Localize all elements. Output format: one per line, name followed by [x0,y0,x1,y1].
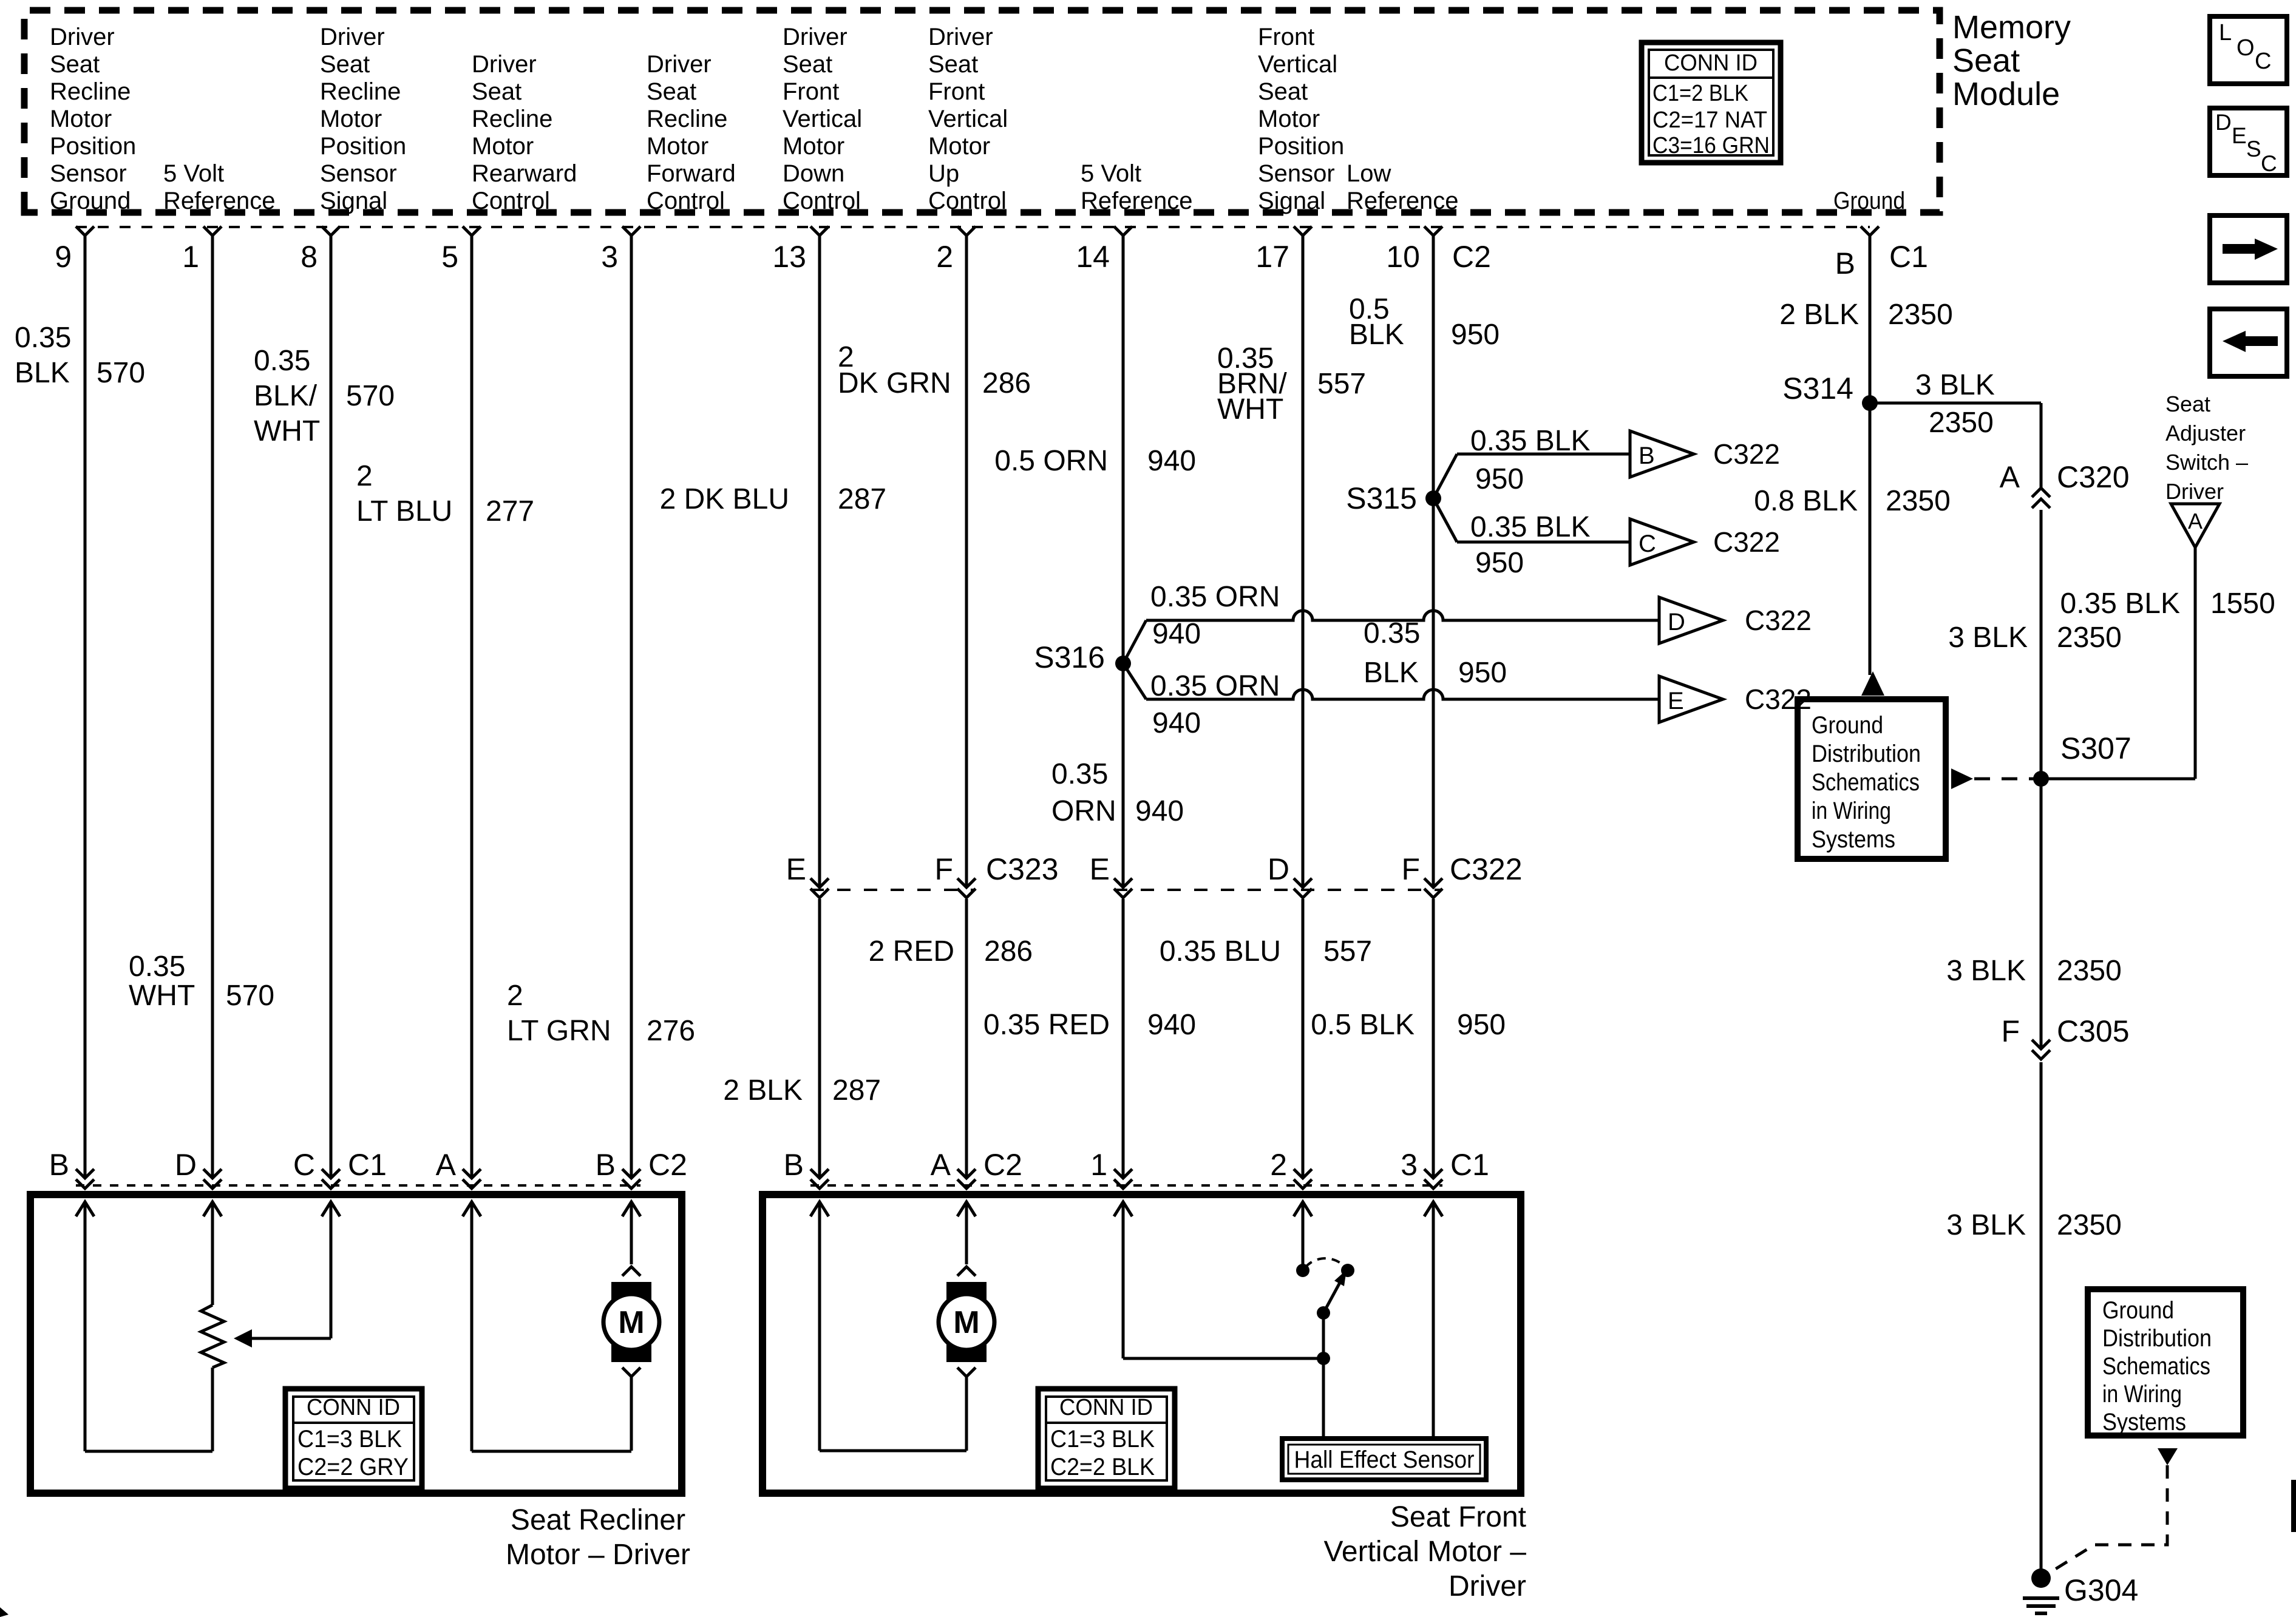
svg-text:A: A [931,1148,951,1182]
svg-text:C323: C323 [986,852,1059,886]
svg-text:C2=17 NAT: C2=17 NAT [1652,107,1767,133]
svg-text:CONN ID: CONN ID [1059,1395,1153,1420]
wire from switch junction to hall effect sensor [1322,1358,1325,1441]
Seat Front Vertical Motor - Driver component box [763,1195,1521,1493]
svg-text:C2: C2 [648,1148,687,1182]
recliner pin B internal wire [76,1202,94,1216]
svg-text:Forward: Forward [647,160,736,187]
svg-text:Recline: Recline [50,78,131,105]
svg-text:3: 3 [1401,1148,1418,1182]
triangle connector D to C322 [1659,597,1723,643]
svg-text:0.35: 0.35 [15,322,71,354]
Memory Seat Module dashed outline box [24,10,1940,212]
dashed reference link from lower box to G304 [2045,1465,2167,1576]
connector terminal B at x=140 [76,1169,94,1178]
svg-text:Front: Front [1258,24,1314,50]
ground distribution schematics reference box upper [1798,699,1946,859]
svg-text:950: 950 [1475,547,1524,579]
splice S314 [1862,395,1878,411]
motor M symbol at x=1040 [622,1267,640,1276]
svg-text:Vertical: Vertical [783,106,862,132]
svg-text:S307: S307 [2060,731,2131,765]
svg-text:S316: S316 [1034,640,1105,674]
svg-text:Driver: Driver [647,51,712,78]
wire 2 BLK 2350 module ground to S314 [1869,236,1872,403]
svg-text:557: 557 [1317,368,1366,400]
svg-text:Up: Up [928,160,959,187]
motor M symbol at x=1592 [957,1267,976,1276]
svg-text:Motor – Driver: Motor – Driver [506,1539,690,1571]
svg-text:Motor: Motor [783,133,844,160]
svg-text:Low: Low [1347,160,1391,187]
svg-text:2350: 2350 [1929,407,1994,439]
svg-text:3 BLK: 3 BLK [1946,955,2026,987]
svg-text:BLK: BLK [1364,657,1419,689]
connector terminal B at x=1350 [810,1169,829,1178]
svg-text:E: E [1090,852,1110,886]
svg-text:C: C [293,1148,315,1182]
svg-text:940: 940 [1147,1009,1196,1041]
svg-text:C2: C2 [1452,240,1491,274]
svg-text:3 BLK: 3 BLK [1948,622,2028,654]
svg-text:Systems: Systems [1812,826,1895,853]
svg-text:Control: Control [928,188,1007,214]
ground distribution schematics reference box lower [2088,1289,2243,1436]
recliner motor supply wire [622,1202,640,1216]
svg-text:C2=2 GRY: C2=2 GRY [297,1454,409,1480]
connector C323 terminal F [957,878,976,887]
scan artifact right edge [2291,1480,2296,1532]
svg-text:Motor: Motor [472,133,534,160]
Hall Effect Sensor box [1282,1439,1486,1480]
wire 570 BLK pin 9 to recliner B [84,236,87,1178]
svg-text:Seat: Seat [2165,392,2210,416]
svg-text:3: 3 [601,240,618,274]
connector terminal 2 at x=2146 [1294,1169,1312,1178]
dashed reference link from ground distribution box to S307 [1951,768,1973,789]
svg-text:C1: C1 [1450,1148,1489,1182]
svg-text:in Wiring: in Wiring [2102,1381,2182,1408]
wire 0.35 BLK 1550 switch to S307 [2194,547,2197,779]
svg-text:Motor: Motor [928,133,990,160]
svg-text:C322: C322 [1450,852,1523,886]
CONN ID table recliner motor [285,1389,422,1488]
svg-text:C2: C2 [983,1148,1022,1182]
svg-text:C1=3 BLK: C1=3 BLK [1050,1426,1155,1453]
svg-text:0.35: 0.35 [1364,617,1420,649]
svg-text:0.8 BLK: 0.8 BLK [1754,485,1858,517]
connector C322 dashed line [1114,889,1442,891]
svg-text:940: 940 [1152,618,1201,650]
svg-text:2 DK BLU: 2 DK BLU [660,483,789,515]
svg-text:0.35 BLU: 0.35 BLU [1160,935,1281,968]
svg-text:0.35 BLK: 0.35 BLK [1470,511,1590,543]
svg-text:Seat: Seat [50,51,100,78]
wire 0.8 BLK 2350 S314 to ground distribution [1869,403,1872,675]
svg-text:M: M [618,1305,644,1340]
svg-text:8: 8 [301,240,318,274]
svg-text:3 BLK: 3 BLK [1915,369,1995,401]
svg-text:1550: 1550 [2210,588,2275,620]
svg-text:950: 950 [1458,657,1507,689]
module connector dashed line [76,226,1870,228]
hall sensor switch left contact from pin 2 [1294,1202,1312,1216]
CONN ID table for module connectors C1 C2 C3 [1642,42,1781,163]
module pin 9 connector symbol [76,226,94,236]
hall sensor switch junction node [1317,1352,1330,1365]
module pin 5 connector symbol [463,226,481,236]
svg-text:D: D [1668,609,1685,636]
svg-text:1: 1 [1090,1148,1107,1182]
svg-text:Ground: Ground [50,188,131,214]
svg-text:286: 286 [984,935,1033,968]
svg-text:Seat: Seat [1258,78,1308,105]
wire 950 BLK pin 10 to C322 F [1432,236,1435,886]
svg-text:Driver: Driver [50,24,115,50]
svg-text:Recline: Recline [472,106,552,132]
splice S316 [1115,656,1131,671]
triangle connector E to C322 [1659,676,1723,722]
vertical motor pin B internal wire [810,1202,829,1216]
svg-text:B: B [1835,246,1855,280]
svg-text:D: D [2215,110,2232,135]
wire 940 ORN pin 14 to C322 E [1122,236,1125,886]
svg-text:CONN ID: CONN ID [307,1395,400,1420]
svg-text:940: 940 [1152,707,1201,739]
svg-text:G304: G304 [2064,1573,2138,1607]
wire 0.35 ORN S316 upper branch to C322 D [1123,620,1146,663]
recliner position sensor potentiometer resistor [203,1202,222,1216]
seat adjuster switch triangle connector A [2171,504,2220,547]
DESC reference box [2210,108,2287,175]
connector terminal 3 at x=2361 [1424,1169,1442,1178]
wire 0.35 BLK S315 lower branch to C322 C [1433,498,1457,542]
svg-text:0.35: 0.35 [254,345,310,377]
wire 570 BLK/WHT pin 8 to recliner C [330,236,333,1178]
svg-text:F: F [1401,852,1420,886]
svg-text:DK GRN: DK GRN [838,367,951,399]
svg-text:Rearward: Rearward [472,160,577,187]
svg-text:950: 950 [1457,1009,1506,1041]
connector terminal 1 at x=1850 [1114,1169,1132,1178]
svg-text:O: O [2237,35,2255,61]
svg-text:Reference: Reference [1347,188,1459,214]
svg-text:E: E [1668,688,1684,714]
svg-text:2350: 2350 [1886,485,1951,517]
wire 287 BLK below C323 E [818,899,821,1178]
svg-text:Driver: Driver [928,24,993,50]
connector terminal D at x=350 [203,1169,222,1178]
svg-text:LT BLU: LT BLU [356,495,452,527]
svg-text:2: 2 [936,240,953,274]
svg-text:LT GRN: LT GRN [507,1015,611,1047]
svg-text:5 Volt: 5 Volt [1081,160,1141,187]
hall sensor switch right contact [1341,1264,1354,1277]
svg-text:A: A [436,1148,457,1182]
svg-text:0.5 ORN: 0.5 ORN [994,445,1108,477]
svg-text:5: 5 [441,240,458,274]
module pin 1 connector symbol [203,226,222,236]
svg-text:in Wiring: in Wiring [1812,798,1891,824]
svg-text:0.5 BLK: 0.5 BLK [1311,1009,1415,1041]
wire 3 BLK 2350 C320 to S307 [2040,510,2043,779]
connector C322 terminal E [1114,878,1132,887]
svg-text:Front: Front [928,78,985,105]
vertical motor connector dashed line [810,1184,1442,1187]
wire 277 LT BLU pin 5 to recliner A [470,236,474,1178]
svg-text:WHT: WHT [129,980,195,1012]
Seat Recliner Motor - Driver component box [30,1195,682,1493]
wire 276 LT GRN pin 3 to recliner B [630,236,633,1178]
svg-text:940: 940 [1135,795,1184,827]
triangle connector B to C322 [1630,431,1694,477]
hall sensor switch dashed travel arc [1305,1258,1345,1267]
svg-text:F: F [2001,1014,2020,1048]
svg-text:276: 276 [647,1015,695,1047]
svg-text:2 RED: 2 RED [869,935,954,968]
forward arrow navigation box [2210,215,2287,283]
svg-text:B: B [1639,442,1655,469]
svg-text:D: D [1268,852,1289,886]
module pin 17 connector symbol [1294,226,1312,236]
recliner connector dashed line [76,1184,640,1187]
svg-text:E: E [2232,123,2247,148]
svg-text:3 BLK: 3 BLK [1946,1209,2026,1241]
module pin 8 connector symbol [322,226,340,236]
svg-text:S315: S315 [1346,481,1417,515]
svg-text:C320: C320 [2057,460,2130,494]
svg-text:Systems: Systems [2102,1409,2186,1436]
svg-text:17: 17 [1255,240,1289,274]
svg-text:Vertical Motor –: Vertical Motor – [1324,1536,1527,1568]
svg-text:Schematics: Schematics [1812,769,1920,796]
wire 940 RED below C322 E [1122,899,1125,1178]
module pin 14 connector symbol [1114,226,1132,236]
svg-text:S: S [2246,137,2261,161]
svg-text:A: A [2188,509,2203,534]
svg-text:Sensor: Sensor [1258,160,1335,187]
svg-text:5 Volt: 5 Volt [163,160,224,187]
svg-text:0.35 ORN: 0.35 ORN [1150,670,1280,702]
svg-text:287: 287 [832,1074,881,1107]
svg-text:L: L [2219,20,2232,46]
svg-text:Ground: Ground [1812,712,1883,739]
svg-text:Driver: Driver [320,24,385,50]
svg-text:Switch –: Switch – [2165,450,2248,475]
wire 570 WHT pin 1 to recliner D [211,236,214,1178]
svg-text:13: 13 [772,240,806,274]
svg-text:Seat: Seat [647,78,696,105]
svg-text:277: 277 [486,495,534,527]
svg-text:C: C [2255,49,2271,74]
recliner pin C wiper wire with arrow [322,1202,340,1216]
svg-text:C: C [1639,531,1656,557]
svg-text:2 BLK: 2 BLK [723,1074,803,1107]
svg-text:Seat: Seat [928,51,978,78]
wire 286 DK GRN pin 2 to C323 F [965,236,968,886]
svg-text:Sensor: Sensor [50,160,127,187]
svg-text:M: M [953,1305,979,1340]
svg-text:C: C [2261,151,2277,176]
connector C323 dashed line [810,889,976,891]
svg-text:2: 2 [507,980,523,1012]
wire 0.35 BLK S315 upper branch to C322 B [1433,454,1457,498]
svg-text:14: 14 [1076,240,1110,274]
module pin 3 connector symbol [622,226,640,236]
svg-text:C305: C305 [2057,1014,2130,1048]
svg-text:Seat Front: Seat Front [1390,1501,1526,1533]
module pin 2 connector symbol [957,226,976,236]
module ground pin B connector symbol [1861,226,1879,236]
svg-text:Driver: Driver [1449,1570,1526,1602]
svg-text:Seat: Seat [783,51,832,78]
vertical motor pin 3 internal wire to hall effect sensor [1424,1202,1442,1216]
svg-text:Signal: Signal [320,188,387,214]
wire 3 BLK 2350 S314 to C320 [1870,402,2041,405]
svg-text:2350: 2350 [2057,1209,2122,1241]
wire 287 DK BLU pin 13 to C323 E [818,236,821,886]
svg-text:2 BLK: 2 BLK [1779,299,1859,331]
svg-text:0.35: 0.35 [129,951,185,983]
svg-text:Seat: Seat [472,78,521,105]
svg-text:2350: 2350 [1888,299,1953,331]
wire 557 BRN/WHT pin 17 to C322 D [1302,236,1305,886]
off-page arrow to ground distribution schematics [1861,671,1884,696]
svg-text:Reference: Reference [1081,188,1193,214]
ground G304 [2031,1568,2051,1588]
svg-text:Position: Position [320,133,406,160]
svg-text:Position: Position [1258,133,1344,160]
svg-text:Driver: Driver [472,51,537,78]
connector terminal B at x=1040 [622,1169,640,1178]
svg-text:Recline: Recline [320,78,401,105]
module pin 10 connector symbol [1424,226,1442,236]
svg-text:Distribution: Distribution [2102,1325,2212,1352]
connector terminal C at x=545 [322,1169,340,1178]
svg-text:C3=16 GRN: C3=16 GRN [1652,133,1770,158]
connector C322 terminal F [1424,878,1442,887]
svg-text:B: B [49,1148,69,1182]
svg-text:Sensor: Sensor [320,160,397,187]
svg-text:CONN ID: CONN ID [1664,50,1758,76]
back arrow navigation box [2210,309,2287,376]
svg-text:950: 950 [1451,319,1500,351]
svg-text:Driver: Driver [783,24,847,50]
svg-text:Ground: Ground [1833,188,1905,214]
connector C322 terminal D [1294,878,1312,887]
svg-text:Signal: Signal [1258,188,1325,214]
svg-text:Seat: Seat [1952,42,2020,79]
svg-text:WHT: WHT [1217,393,1283,425]
svg-text:C322: C322 [1713,526,1780,558]
connector C320 terminal A [2032,488,2050,497]
svg-text:0.35 BLK: 0.35 BLK [2060,588,2180,620]
wire 3 BLK 2350 S307 to C305 [2040,779,2043,1049]
svg-text:0.35: 0.35 [1051,758,1108,790]
svg-text:D: D [175,1148,197,1182]
svg-text:C322: C322 [1713,438,1780,470]
svg-text:Down: Down [783,160,844,187]
svg-text:BLK: BLK [15,357,70,389]
connector C323 terminal E [810,878,829,887]
svg-text:Vertical: Vertical [1258,51,1337,78]
svg-text:C1: C1 [348,1148,387,1182]
svg-text:Driver: Driver [2165,479,2224,504]
CONN ID table vertical motor [1038,1389,1175,1488]
svg-text:Motor: Motor [647,133,708,160]
svg-text:2350: 2350 [2057,622,2122,654]
svg-text:ORN: ORN [1051,795,1116,827]
svg-text:Reference: Reference [163,188,276,214]
svg-text:0.35 ORN: 0.35 ORN [1150,581,1280,613]
wire 950 BLK below C322 F [1432,899,1435,1178]
wire 286 RED below C323 F [965,899,968,1178]
wire 0.35 ORN S316 lower branch to C322 E [1123,663,1146,699]
svg-text:Control: Control [647,188,725,214]
svg-text:940: 940 [1147,445,1196,477]
svg-text:Control: Control [472,188,550,214]
svg-text:Module: Module [1952,76,2060,112]
svg-text:S314: S314 [1782,371,1853,405]
svg-text:Vertical: Vertical [928,106,1008,132]
LOC reference box [2210,16,2287,84]
connector C305 terminal F [2032,1040,2050,1049]
svg-text:Motor: Motor [320,106,382,132]
svg-text:0.35 RED: 0.35 RED [983,1009,1110,1041]
svg-text:Motor: Motor [1258,106,1320,132]
svg-text:BLK/: BLK/ [254,380,318,412]
wire 557 BLU below C322 D [1302,899,1305,1178]
connector terminal A at x=1592 [957,1169,976,1178]
connector terminal A at x=777 [463,1169,481,1178]
svg-text:Ground: Ground [2102,1297,2174,1324]
svg-text:Position: Position [50,133,136,160]
svg-text:Seat Recliner: Seat Recliner [511,1504,685,1536]
svg-text:557: 557 [1323,935,1372,968]
svg-text:2: 2 [356,460,373,492]
svg-text:Schematics: Schematics [2102,1353,2210,1380]
svg-text:Front: Front [783,78,839,105]
svg-text:286: 286 [982,367,1031,399]
svg-text:B: B [784,1148,804,1182]
svg-text:Distribution: Distribution [1812,741,1921,767]
svg-text:Motor: Motor [50,106,112,132]
svg-text:Adjuster: Adjuster [2165,421,2246,446]
svg-text:C1=2 BLK: C1=2 BLK [1652,81,1748,106]
svg-text:Hall Effect Sensor: Hall Effect Sensor [1294,1446,1475,1473]
svg-text:C1: C1 [1889,240,1928,274]
svg-text:Recline: Recline [647,106,727,132]
svg-text:E: E [786,852,806,886]
svg-text:570: 570 [346,380,395,412]
svg-text:570: 570 [97,357,145,389]
svg-text:287: 287 [838,483,886,515]
off-page arrow from lower ground distribution box [2158,1448,2178,1465]
svg-text:B: B [596,1148,616,1182]
triangle connector C to C322 [1630,519,1694,565]
svg-text:1: 1 [182,240,199,274]
hall sensor switch blade [1317,1306,1330,1320]
svg-text:570: 570 [226,980,274,1012]
svg-text:Memory: Memory [1952,9,2071,46]
vertical motor supply wire [957,1202,976,1216]
wire 3 BLK 2350 C305 to G304 [2040,1062,2043,1578]
vertical motor pin 1 internal wire to hall sensor switch [1114,1202,1132,1216]
splice S315 [1425,490,1441,506]
svg-text:WHT: WHT [254,415,320,447]
svg-text:BLK: BLK [1349,319,1404,351]
splice S307 [2033,771,2049,787]
